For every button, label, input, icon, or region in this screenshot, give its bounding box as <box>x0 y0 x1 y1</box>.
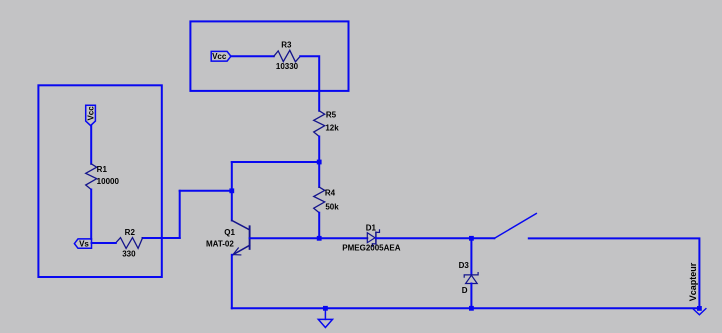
wire down to collector <box>231 162 233 220</box>
node junction D3 top <box>469 236 474 241</box>
wire junction to collector branch (horizontal) <box>232 161 319 163</box>
flag Vcc (top box) <box>211 51 231 61</box>
wire R1 to Vs flag <box>90 190 92 239</box>
wire ground rail <box>232 307 700 309</box>
node junction ground stub <box>323 306 328 311</box>
wire D3 bottom lead <box>470 284 472 309</box>
svg-text:R2: R2 <box>125 228 136 237</box>
flag Vs <box>74 239 91 249</box>
svg-text:12k: 12k <box>325 124 339 133</box>
wire R3 to corner down to R5 <box>300 56 319 111</box>
diode D1 schottky <box>342 223 400 252</box>
wire R4 to base wire <box>318 213 320 239</box>
svg-text:Q1: Q1 <box>224 228 235 237</box>
node junction R5/R4 <box>317 160 322 165</box>
node junction collector/base feed <box>229 188 234 193</box>
wire D3 top lead <box>470 238 472 275</box>
svg-text:D1: D1 <box>366 223 377 232</box>
wire vertical riser from R2 <box>179 191 181 238</box>
svg-text:Vcc: Vcc <box>86 106 95 121</box>
wire R2 to riser <box>143 237 180 239</box>
node junction D3 bottom <box>469 306 474 311</box>
wire Vs flag to R2 <box>92 242 116 244</box>
node junction R4/base wire <box>317 236 322 241</box>
enclosure box top <box>190 21 348 91</box>
svg-text:Vs: Vs <box>79 240 89 249</box>
wire base to D1 <box>250 237 368 239</box>
resistor R3 <box>274 40 300 71</box>
ground <box>318 308 332 327</box>
svg-text:330: 330 <box>122 250 136 259</box>
svg-text:10000: 10000 <box>97 177 120 186</box>
resistor R5 <box>314 111 340 137</box>
wire R5 to R4 <box>318 137 320 188</box>
wire Vcc to R3 <box>231 55 274 57</box>
svg-text:D: D <box>462 286 468 295</box>
svg-text:R3: R3 <box>281 40 292 49</box>
resistor R2 <box>116 228 143 259</box>
svg-text:R1: R1 <box>97 165 108 174</box>
net Vcapteur arrow <box>688 262 706 315</box>
wire emitter down <box>231 255 233 308</box>
transistor Q1 <box>206 220 250 255</box>
svg-text:D3: D3 <box>459 261 470 270</box>
resistor R4 <box>314 187 340 213</box>
switch blade <box>494 214 536 239</box>
wire switch to right rail <box>529 238 700 308</box>
wire Vcc flag to R1 <box>90 126 92 164</box>
svg-text:50k: 50k <box>325 203 339 212</box>
diode D3 zener <box>459 261 479 295</box>
enclosure box left <box>38 85 161 277</box>
node junction Vcapteur <box>697 306 702 311</box>
flag Vcc (left box, rotated down) <box>86 105 96 125</box>
svg-text:R4: R4 <box>325 189 336 198</box>
resistor R1 <box>86 164 120 190</box>
svg-text:Vcc: Vcc <box>212 52 227 61</box>
wire D1 to switch <box>376 237 494 239</box>
svg-text:MAT-02: MAT-02 <box>206 240 234 249</box>
wire base feed horizontal <box>180 190 232 192</box>
svg-text:10330: 10330 <box>276 62 299 71</box>
svg-text:R5: R5 <box>326 111 337 120</box>
svg-text:PMEG2005AEA: PMEG2005AEA <box>342 244 400 253</box>
svg-text:Vcapteur: Vcapteur <box>688 262 698 301</box>
